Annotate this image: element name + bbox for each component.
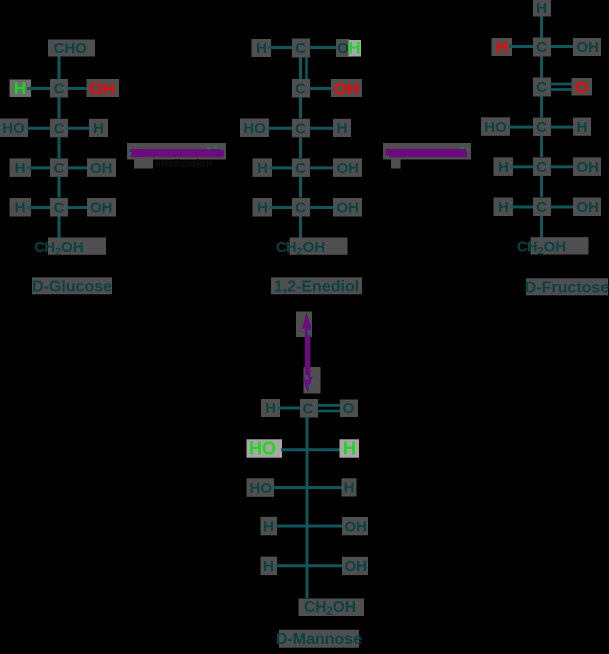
mannose C2 HO label (green) — [247, 439, 283, 457]
enediol bond H-C5 — [269, 206, 293, 209]
svg-text:H: H — [265, 400, 276, 417]
fructose double bond C2=O line 2 — [550, 88, 574, 91]
svg-text:H: H — [343, 438, 356, 458]
svg-text:O: O — [337, 40, 349, 57]
svg-text:H: H — [337, 120, 348, 137]
mannose C5 H label — [261, 557, 278, 576]
fructose C1 top H label — [533, 0, 551, 17]
fructose bond C3-H — [550, 126, 575, 129]
mannose chain vertical bond C1-C6 — [306, 418, 309, 599]
mannose bond H-C4-OH — [276, 525, 344, 528]
fructose double bond C2=O line 1 — [550, 83, 574, 86]
arrow glucose-enediol green specks right — [207, 147, 210, 150]
svg-text:O: O — [575, 78, 588, 97]
svg-text:OH: OH — [337, 200, 360, 217]
svg-text:C: C — [295, 120, 306, 137]
enediol bond C2-C3 — [299, 98, 302, 119]
glucose bond C2-C3 — [58, 98, 61, 119]
glucose name label — [32, 277, 112, 294]
enediol C3 atom — [292, 119, 310, 138]
fructose bond C2-C3 — [540, 97, 543, 118]
glucose bond HO-C3 — [27, 127, 51, 130]
enediol bond C2-OH — [309, 87, 333, 90]
fructose C2 atom — [533, 78, 551, 97]
enediol C2 atom — [292, 79, 310, 98]
mannose bond HO-C3-H — [273, 486, 344, 489]
glucose C5 H label — [10, 198, 32, 217]
glucose C4 H label — [10, 158, 32, 177]
enediol bond H-C1 — [268, 46, 293, 49]
svg-text:OH: OH — [577, 159, 600, 176]
svg-text:C: C — [54, 120, 65, 137]
vertical arrow enediol-mannose bottom label box — [304, 367, 321, 394]
enediol double bond C1=C2 line 1 — [299, 58, 302, 80]
glucose C3 H label — [89, 119, 108, 137]
glucose bond C1-C2 — [58, 57, 61, 80]
svg-text:H: H — [536, 0, 547, 17]
svg-text:C: C — [536, 159, 547, 176]
svg-text:OH: OH — [345, 518, 368, 535]
mannose double bond C1=O line 2 — [317, 410, 342, 413]
fructose C1 H label (red) — [492, 38, 513, 56]
enediol C5 OH label — [333, 198, 362, 217]
svg-text:H: H — [15, 160, 26, 177]
svg-text:OH: OH — [337, 160, 360, 177]
enediol C3 HO label — [240, 119, 269, 138]
arrow glucose-enediol (purple equilibrium arrow) — [130, 149, 224, 157]
mannose bond H-C1 — [277, 407, 300, 410]
glucose CH2OH group C6 — [48, 238, 106, 255]
svg-text:H: H — [257, 160, 268, 177]
enediol C2 OH label (red) — [331, 79, 362, 97]
enediol bond HO-C3 — [268, 127, 293, 130]
fructose bond C5-C6 — [540, 216, 543, 238]
svg-text:OH: OH — [90, 200, 113, 217]
fructose bond H-C5 — [510, 206, 534, 209]
svg-text:1,2-Enediol: 1,2-Enediol — [274, 278, 359, 295]
fructose C4 H label — [494, 157, 514, 176]
glucose C2 OH label (red) — [87, 79, 120, 97]
svg-text:D-Glucose: D-Glucose — [32, 278, 112, 295]
glucose bond H-C5 — [27, 206, 51, 209]
enediol bond C4-OH — [309, 166, 336, 169]
fructose C5 atom — [533, 198, 551, 217]
fructose C2 O label (red) — [572, 78, 593, 96]
svg-text:enolization: enolization — [155, 158, 213, 170]
fructose C3 atom — [533, 118, 551, 137]
fructose bond C3-C4 — [540, 136, 543, 157]
fructose C3 HO label — [481, 117, 510, 136]
glucose C4 OH label — [87, 158, 116, 177]
glucose bond C4-OH — [67, 166, 90, 169]
svg-text:C: C — [295, 81, 306, 98]
svg-text:CHO: CHO — [54, 40, 88, 57]
fructose C3 H label — [573, 118, 591, 136]
svg-text:H: H — [257, 200, 268, 217]
svg-text:C: C — [536, 79, 547, 96]
glucose bond C4-C5 — [58, 177, 61, 198]
svg-text:C: C — [295, 40, 306, 57]
mannose C1 atom — [300, 399, 318, 418]
fructose bond H-C4 — [510, 165, 534, 168]
vertical arrow enediol-mannose top label box — [296, 312, 312, 338]
svg-text:C: C — [54, 160, 65, 177]
enediol C4 H label — [253, 158, 273, 177]
arrow enediol-fructose green specks — [461, 147, 464, 150]
arrow glucose-enediol green speck left — [129, 152, 132, 155]
enediol C1 O label — [336, 39, 350, 57]
glucose CHO group C1 — [48, 40, 95, 57]
svg-text:D-Fructose: D-Fructose — [525, 279, 609, 296]
svg-text:H: H — [498, 199, 509, 216]
enediol bond C4-C5 — [299, 177, 302, 198]
arrow enediol-fructose (purple equilibrium arrow) — [386, 149, 468, 157]
mannose C2 H label (green) — [340, 439, 360, 457]
enediol C5 H label — [253, 198, 273, 217]
svg-text:HO: HO — [243, 120, 266, 137]
enediol bond C1-O — [309, 46, 338, 49]
svg-text:OH: OH — [577, 199, 600, 216]
glucose bond C3-C4 — [58, 137, 61, 158]
enediol C3 H label — [333, 119, 351, 137]
svg-text:OH: OH — [334, 80, 360, 99]
svg-text:H: H — [577, 119, 588, 136]
arrow enediol-fructose small label box below — [391, 160, 401, 169]
svg-text:C: C — [536, 39, 547, 56]
glucose bond H-C2 — [27, 87, 51, 90]
fructose bond C4-C5 — [540, 176, 543, 197]
enediol bond C3-C4 — [299, 137, 302, 158]
fructose bond C4-OH — [550, 165, 576, 168]
arrow enediol-fructose label box — [383, 143, 471, 160]
svg-text:C: C — [54, 81, 65, 98]
mannose double bond C1=O line 1 — [317, 404, 342, 407]
mannose C4 OH label — [342, 517, 368, 535]
svg-text:OH: OH — [345, 558, 368, 575]
enediol C4 atom — [292, 158, 310, 177]
mannose name label — [279, 630, 359, 648]
enediol C4 OH label — [333, 158, 362, 177]
glucose bond C2-OH — [67, 87, 88, 90]
svg-text:H: H — [263, 558, 274, 575]
glucose bond C5-C6 — [58, 217, 61, 239]
mannose C3 H label — [342, 478, 357, 496]
svg-text:H: H — [498, 159, 509, 176]
enediol bond C3-H — [309, 127, 334, 130]
svg-text:H: H — [348, 39, 360, 58]
fructose CH2OH group C6 — [531, 237, 589, 254]
fructose bond C5-OH — [550, 206, 576, 209]
enediol bond H-C4 — [269, 166, 293, 169]
glucose C2 H label (green) — [10, 80, 32, 98]
svg-text:C: C — [295, 160, 306, 177]
fructose bond H-C1 left — [509, 45, 534, 48]
enediol name label — [271, 277, 362, 294]
glucose C5 OH label — [87, 198, 116, 217]
glucose C3 atom — [50, 119, 68, 138]
svg-text:O: O — [343, 400, 355, 417]
enediol bond C5-C6 — [299, 217, 302, 239]
fructose C4 OH label — [573, 157, 601, 176]
fructose bond C1-C2 — [540, 57, 543, 78]
fructose bond HO-C3 — [508, 126, 534, 129]
svg-text:H: H — [256, 40, 267, 57]
enediol C1 H label — [252, 39, 272, 57]
mannose C1 O label — [340, 400, 358, 418]
glucose C2 atom — [50, 79, 68, 98]
enediol bond C5-OH — [309, 206, 336, 209]
fructose C1 OH label — [573, 38, 601, 56]
fructose C4 atom — [533, 157, 551, 176]
svg-text:H: H — [15, 200, 26, 217]
glucose bond C5-OH — [67, 206, 90, 209]
svg-text:H: H — [14, 79, 26, 98]
glucose C4 atom — [50, 158, 68, 177]
glucose C3 HO label — [0, 119, 28, 138]
svg-text:C: C — [54, 200, 65, 217]
svg-text:H: H — [263, 518, 274, 535]
vertical arrow teal specks — [308, 330, 311, 335]
glucose bond H-C4 — [27, 166, 51, 169]
fructose name label — [526, 278, 608, 295]
fructose bond C1-OH — [550, 45, 576, 48]
enediol double bond C1=C2 line 2 — [305, 58, 308, 80]
fructose bond H-C1 — [540, 17, 543, 39]
glucose C5 atom — [50, 198, 68, 217]
fructose C5 H label — [494, 198, 514, 217]
svg-text:C: C — [303, 401, 314, 418]
svg-text:OH: OH — [577, 39, 600, 56]
svg-text:OH: OH — [90, 160, 113, 177]
svg-text:HO: HO — [249, 438, 276, 458]
svg-text:HO: HO — [484, 119, 507, 136]
glucose bond C3-H — [67, 127, 90, 130]
mannose C4 H label — [261, 517, 278, 536]
mannose bond HO-C2-H — [281, 448, 342, 451]
fructose C5 OH label — [573, 198, 601, 217]
mannose C5 OH label — [342, 557, 368, 575]
svg-text:D-Mannose: D-Mannose — [276, 631, 362, 648]
vertical arrow enediol-mannose (purple double-headed) — [302, 313, 313, 393]
svg-text:C: C — [536, 119, 547, 136]
svg-text:H: H — [93, 120, 104, 137]
svg-text:HO: HO — [2, 120, 25, 137]
enediol C1 OH hydrogen (green) — [349, 40, 362, 57]
svg-text:HO: HO — [250, 480, 273, 497]
enediol CH2OH group C6 — [290, 238, 348, 255]
arrow glucose-enediol small label box below — [134, 158, 153, 169]
enediol C1 atom — [292, 39, 310, 58]
svg-text:OH: OH — [89, 80, 115, 99]
svg-text:H: H — [344, 480, 355, 497]
mannose bond H-C5-OH — [276, 564, 344, 567]
svg-text:C: C — [536, 199, 547, 216]
svg-text:H: H — [496, 38, 508, 57]
svg-text:C: C — [295, 200, 306, 217]
mannose C1 H label — [261, 399, 280, 417]
arrow glucose-enediol label box — [127, 143, 226, 160]
fructose C1 atom — [533, 38, 551, 57]
mannose CH2OH group C6 — [299, 599, 365, 617]
enediol C5 atom — [292, 198, 310, 217]
mannose C3 HO label — [247, 478, 275, 497]
